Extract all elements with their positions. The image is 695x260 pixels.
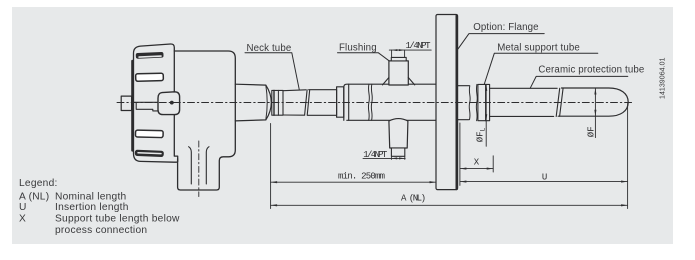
extension line tip [627, 104, 629, 209]
flushing tube break [368, 84, 369, 120]
bottom flushing nozzle body [389, 119, 408, 148]
latch screw dot top [170, 101, 173, 104]
top nozzle fillets [383, 78, 415, 85]
head bottom vertical centerline [198, 141, 200, 197]
flushing tube body [344, 84, 436, 120]
neck hex nut [235, 84, 271, 121]
neck collar [337, 87, 344, 117]
svg-text:Nominal length: Nominal length [55, 192, 126, 203]
svg-text:1/4NPT: 1/4NPT [406, 41, 432, 51]
latch knob [158, 92, 180, 115]
neck tube segment 1 [283, 90, 307, 115]
dimension X [460, 168, 493, 170]
svg-text:min. 250mm: min. 250mm [338, 172, 385, 182]
extension line X right [492, 156, 494, 172]
top flushing nozzle body [389, 61, 408, 85]
flange hub [458, 86, 469, 120]
svg-text:Ceramic protection tube: Ceramic protection tube [538, 64, 644, 75]
dimension: phi F line [594, 88, 596, 138]
svg-text:Neck tube: Neck tube [247, 43, 292, 54]
dimension 1/4NPT bottom [363, 156, 405, 159]
ceramic protection tube [558, 88, 628, 116]
head cap rim [131, 61, 133, 151]
ceramic tube break edge [560, 88, 564, 116]
svg-text:A (NL): A (NL) [401, 194, 426, 204]
latch screw dot [170, 101, 174, 105]
top nozzle cap [391, 57, 406, 61]
leader Option: Flange [458, 34, 544, 49]
svg-text:U: U [19, 202, 27, 213]
svg-text:Option: Flange: Option: Flange [473, 22, 539, 33]
svg-text:Flushing: Flushing [339, 43, 377, 54]
svg-text:Legend:: Legend: [19, 178, 58, 189]
neck tube segment 2 [307, 90, 336, 116]
dimension A (NL) [271, 204, 628, 206]
hub break curve [469, 86, 470, 120]
metal support tube [490, 88, 560, 116]
svg-text:X: X [474, 157, 480, 167]
support collar [478, 84, 490, 120]
svg-text:14139064.01: 14139064.01 [660, 57, 667, 99]
extension line flange face [459, 123, 461, 185]
collar break curve [476, 84, 477, 120]
svg-text:Support tube length below: Support tube length below [55, 213, 180, 224]
head left stub [121, 96, 131, 110]
dimension: phi F_L line [485, 84, 487, 146]
flange [436, 15, 458, 190]
hex inner facet arc [266, 85, 267, 120]
head screw cap [134, 44, 178, 162]
latch clamp bar [134, 102, 159, 111]
cap slot 2 [136, 73, 164, 81]
dimension 1/4NPT top [389, 49, 431, 57]
bottom nozzle cap [391, 148, 404, 156]
head body outline with bottom bracket [174, 51, 235, 190]
leader Neck tube [245, 53, 299, 90]
leader Ceramic protection tube [530, 76, 628, 88]
extension line left (A / min250) [270, 124, 272, 209]
svg-text:ØF: ØF [587, 126, 597, 137]
svg-text:Metal support tube: Metal support tube [497, 43, 580, 54]
svg-text:1/4NPT: 1/4NPT [363, 150, 388, 160]
leader Flushing [338, 53, 389, 61]
flange right thick edge [456, 16, 458, 190]
cap slot 3 [135, 130, 163, 138]
svg-text:Insertion length: Insertion length [55, 202, 129, 213]
dimension min. 250mm [271, 181, 436, 183]
thread relief [272, 90, 283, 115]
leader Metal support tube [484, 53, 598, 84]
dimension U [460, 181, 628, 183]
cap slot 1 [136, 52, 164, 59]
svg-text:X: X [19, 213, 26, 224]
svg-text:U: U [542, 172, 547, 182]
svg-text:A (NL): A (NL) [19, 192, 49, 203]
head bottom inner tube [189, 147, 192, 184]
cap slot 4 [135, 150, 164, 157]
svg-text:process connection: process connection [55, 225, 147, 236]
main horizontal centerline [117, 102, 634, 104]
